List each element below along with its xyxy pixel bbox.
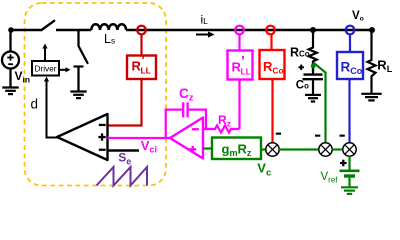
wire RCo blue down to summer — [348, 79, 350, 143]
capacitor Cz feedback — [166, 110, 182, 138]
plus below summer3 — [340, 160, 347, 167]
summer 3 — [343, 143, 356, 156]
node Vo junction — [369, 27, 375, 33]
svg-text:Rz: Rz — [218, 113, 231, 129]
wire R'LL to comparator (dark red) — [108, 79, 142, 126]
summer 1 — [266, 143, 279, 156]
svg-text:Vin: Vin — [15, 69, 31, 85]
wire top rail main — [56, 29, 374, 31]
block RCo (red) — [260, 50, 285, 79]
op-amp input signs - + — [189, 128, 199, 153]
block R'LL (magenta) — [228, 51, 253, 80]
wire port to R'LL box (magenta) — [238, 34, 240, 50]
node green tap dot — [311, 64, 316, 69]
minus at summer3 — [340, 135, 345, 137]
port circle vo sense (magenta) — [235, 26, 244, 35]
wire comparator output to driver (d) — [47, 80, 58, 138]
resistor Rz — [203, 126, 240, 133]
svg-text:d: d — [31, 97, 39, 112]
resistor RL — [368, 30, 376, 94]
svg-text:Vc: Vc — [257, 161, 271, 179]
source Vin — [2, 30, 19, 87]
plus sign Co — [299, 65, 304, 70]
sawtooth ramp — [97, 167, 148, 186]
block RCo (blue) — [337, 52, 363, 79]
control region dashed border — [25, 3, 167, 186]
capacitor Co — [304, 73, 323, 75]
wire driver to S2 arrow — [59, 69, 67, 71]
port circle Vo (blue) — [346, 26, 355, 35]
Vin polarity marks — [7, 54, 13, 65]
node branch RCo-Co — [310, 27, 316, 33]
wire gmRz to summer1 — [261, 148, 266, 150]
ground below Vin — [2, 88, 18, 95]
svg-text:Vo: Vo — [352, 10, 364, 23]
minus at summer1 — [276, 133, 281, 135]
svg-text:Cz: Cz — [179, 86, 194, 104]
svg-text:iL: iL — [201, 13, 209, 27]
svg-text:Vref: Vref — [321, 171, 339, 185]
switch S2 low-side — [77, 30, 79, 46]
svg-text:Co: Co — [296, 80, 309, 92]
wire port to R'LL box (dark red) — [140, 34, 142, 55]
block R'LL (dark red) — [127, 56, 156, 80]
wire top rail left segment — [11, 29, 42, 31]
arrow iL — [196, 34, 209, 36]
comparator U2 — [57, 114, 108, 160]
svg-text:Driver: Driver — [34, 63, 56, 73]
wire driver to S1 arrow — [44, 47, 46, 61]
battery Vref — [340, 170, 360, 173]
wire summer3 to Vref — [348, 156, 350, 170]
svg-text:RL: RL — [377, 58, 392, 75]
wire green tap from Co top — [313, 63, 325, 143]
minus at summer2 — [315, 135, 320, 137]
svg-text:Vci: Vci — [141, 138, 157, 155]
wire op-amp output / comparator + input (vci) — [108, 137, 171, 139]
comparator input signs - + - — [98, 124, 105, 151]
wire port to RCo box (red) — [270, 34, 272, 50]
ground below RL — [361, 94, 381, 101]
svg-text:RCo: RCo — [290, 46, 310, 60]
op-amp U3 (magenta) — [170, 118, 203, 159]
block gmRz (green) — [203, 147, 212, 149]
port circle iL sense (dark red) — [137, 26, 146, 35]
port circle vo sense (red) — [266, 26, 275, 35]
wire R'LL magenta down to Rz — [238, 80, 240, 130]
ground below Vref (green) — [341, 187, 358, 194]
ground below Co — [305, 95, 321, 102]
wire port to RCo box (blue) — [349, 34, 351, 52]
svg-text:Ls: Ls — [104, 32, 115, 46]
inductor Ls — [91, 24, 126, 30]
ground below S2 — [70, 92, 86, 99]
node input — [8, 27, 14, 33]
wire Se ramp input — [108, 149, 140, 151]
switch S1 blade — [42, 21, 55, 30]
wire RCo red down to summer — [271, 79, 273, 143]
driver U1 — [32, 61, 59, 76]
summer 2 — [319, 143, 332, 156]
wire summer2 to summer3 (green) — [332, 148, 343, 150]
svg-text:Se: Se — [118, 151, 131, 167]
wire summer1 to summer2 (green) — [279, 148, 319, 150]
resistor RCo (ESR) — [309, 30, 317, 72]
